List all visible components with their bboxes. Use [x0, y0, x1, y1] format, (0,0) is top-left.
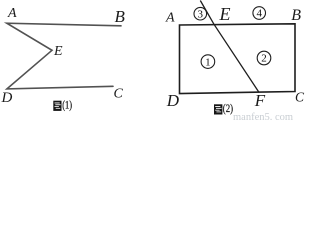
svg-text:1: 1 — [205, 56, 211, 68]
svg-text:4: 4 — [256, 8, 262, 20]
svg-text:A: A — [7, 6, 17, 21]
svg-text:B: B — [291, 7, 301, 24]
svg-text:(2): (2) — [223, 101, 233, 115]
svg-text:A: A — [165, 11, 175, 26]
svg-text:C: C — [114, 87, 124, 102]
svg-text:D: D — [1, 90, 13, 106]
svg-text:C: C — [295, 90, 305, 105]
svg-text:E: E — [53, 44, 63, 59]
svg-text:2: 2 — [261, 53, 267, 65]
svg-text:D: D — [166, 91, 180, 110]
svg-text:B: B — [115, 7, 126, 26]
svg-text:3: 3 — [198, 8, 204, 20]
svg-text:(1): (1) — [62, 98, 72, 112]
svg-text:E: E — [219, 4, 231, 24]
svg-text:F: F — [254, 91, 266, 110]
svg-text:manfen5. com: manfen5. com — [233, 112, 293, 122]
